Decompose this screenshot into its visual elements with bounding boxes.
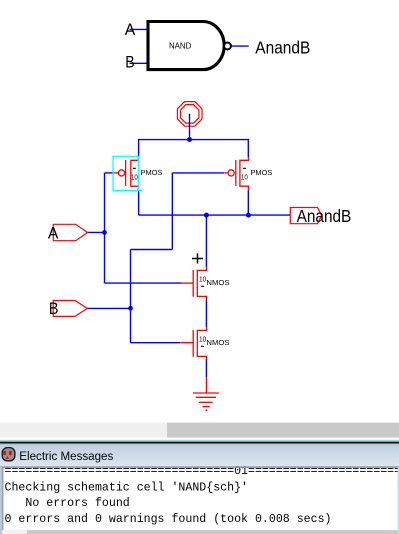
svg-text:10: 10 [199,334,206,343]
svg-text:Checking schematic cell 'NAND{: Checking schematic cell 'NAND{sch}' [5,481,249,494]
svg-text:0 errors and 0 warnings found: 0 errors and 0 warnings found (took 0.00… [5,513,332,526]
svg-text:NMOS: NMOS [206,278,229,287]
svg-text:10: 10 [199,274,206,283]
svg-text:A: A [48,224,59,242]
svg-text:PMOS: PMOS [250,168,272,177]
svg-text:10: 10 [131,172,138,181]
svg-text:NAND: NAND [169,41,191,51]
svg-text:NMOS: NMOS [206,338,229,347]
svg-text:AnandB: AnandB [255,38,310,58]
svg-text:No errors found: No errors found [5,497,130,510]
svg-text:B: B [125,53,134,71]
svg-text:Electric Messages: Electric Messages [19,449,113,463]
svg-text:AnandB: AnandB [297,206,352,226]
svg-text:PMOS: PMOS [141,168,163,177]
svg-text:10: 10 [241,172,248,181]
svg-text:B: B [49,300,59,318]
svg-text:A: A [125,21,136,39]
